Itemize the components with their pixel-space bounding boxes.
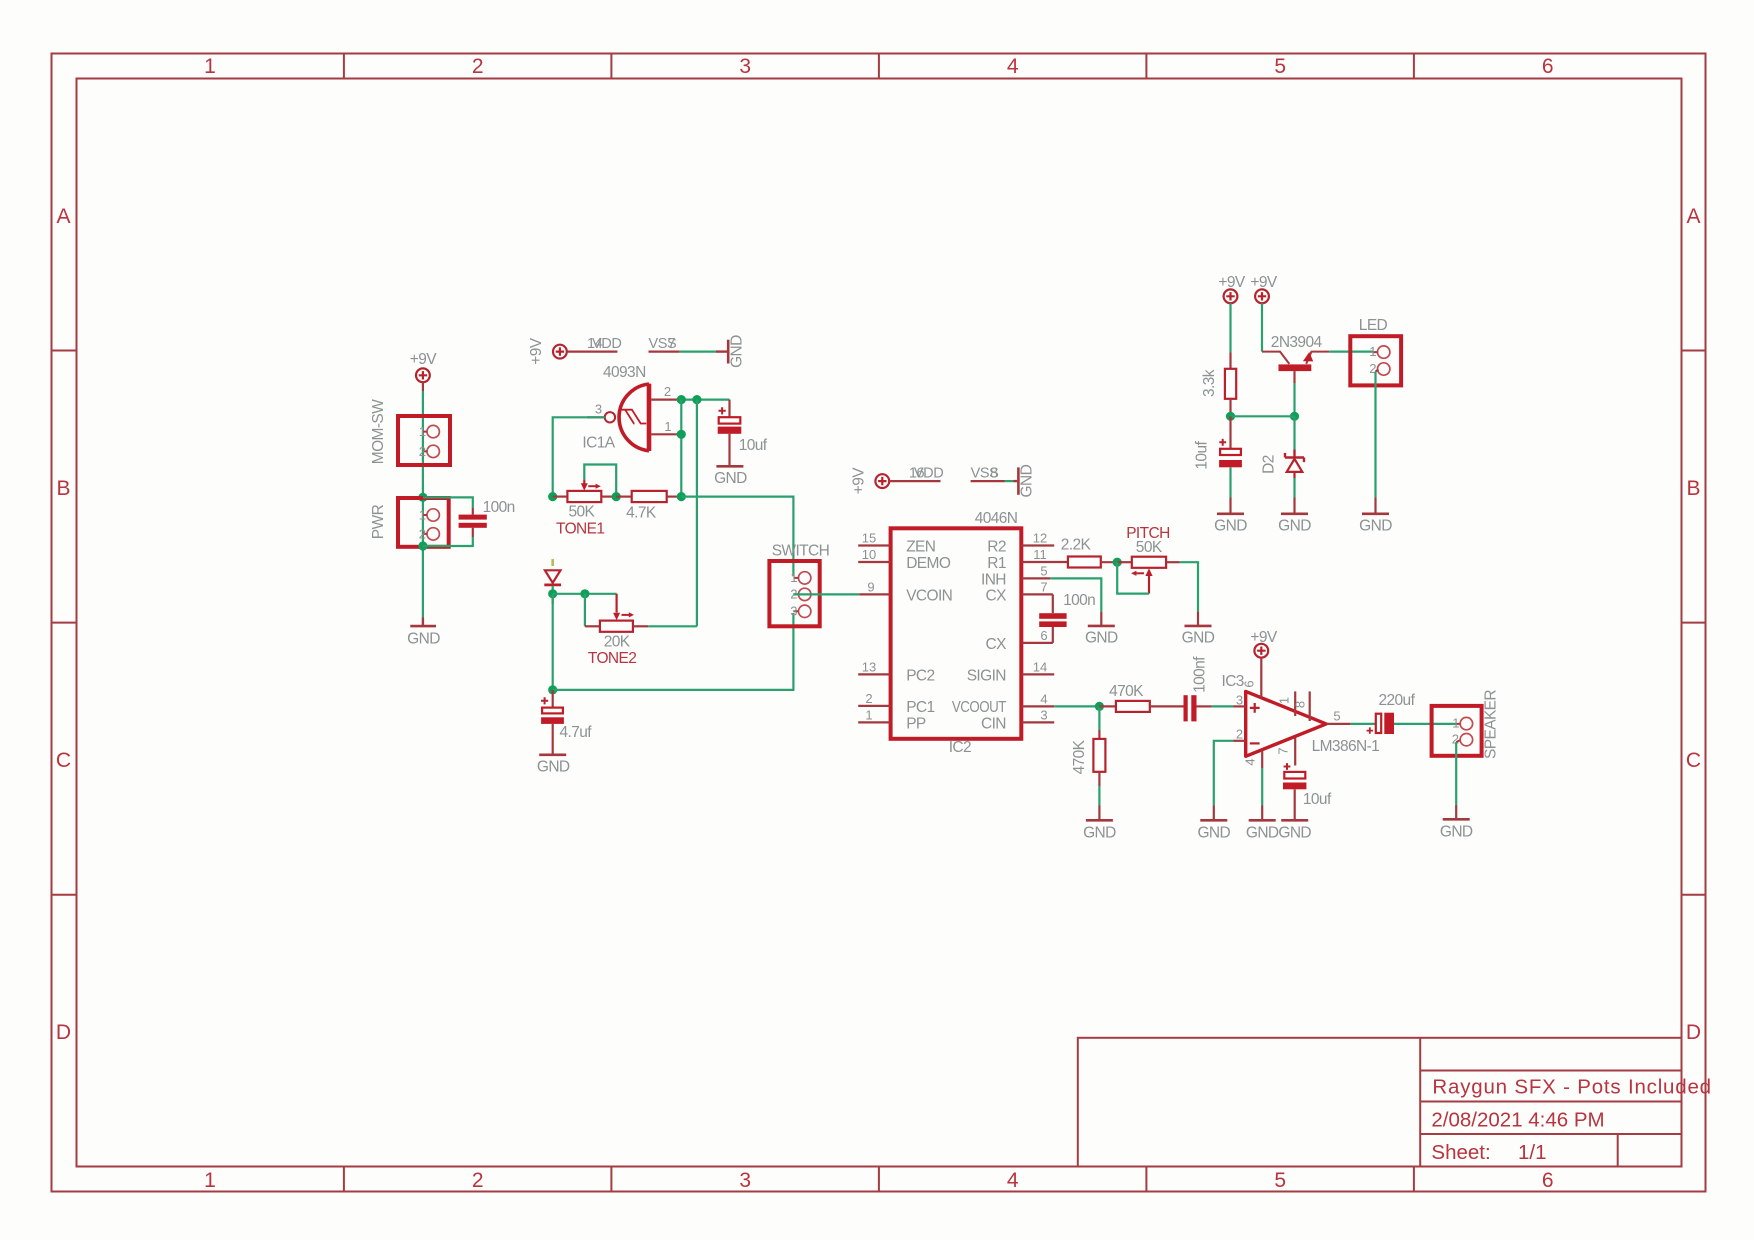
capacitor 4.7uf plus sign	[541, 697, 548, 704]
svg-text:11: 11	[1033, 547, 1047, 562]
connector LED	[1350, 336, 1401, 385]
ground GND (SPEAKER)	[1443, 805, 1470, 819]
frame column labels top	[204, 55, 1553, 78]
svg-text:4: 4	[1243, 758, 1258, 765]
svg-text:GND: GND	[1278, 518, 1311, 535]
node gate out B	[692, 395, 701, 404]
wire 100nf to IC3 pin3	[1212, 705, 1233, 707]
IC IC2 body	[891, 528, 1022, 739]
frame top column ticks	[344, 54, 1414, 79]
frame row labels right	[1686, 205, 1701, 1044]
ground GND (10uf bypass)	[1281, 819, 1308, 822]
resistor 470K vertical	[1093, 730, 1105, 786]
svg-text:VDD: VDD	[914, 465, 943, 481]
svg-text:50K: 50K	[569, 504, 596, 521]
wire PITCH wiper loop	[1117, 562, 1149, 593]
IC3 pin 6 line	[1260, 658, 1262, 698]
svg-text:1: 1	[419, 508, 426, 523]
title block sheet cell divider	[1617, 1134, 1619, 1167]
svg-text:D: D	[56, 1021, 71, 1044]
svg-text:GND: GND	[729, 335, 746, 368]
supply +9V (Q1)	[1255, 289, 1269, 303]
IC1A pin 3 stub	[587, 416, 605, 418]
svg-text:14: 14	[1033, 659, 1047, 674]
svg-text:2: 2	[865, 691, 872, 706]
IC2 pin 12 stub	[1021, 544, 1054, 546]
IC2 pin 1 stub	[858, 721, 890, 723]
node TONE2 wiper junction	[580, 589, 589, 598]
svg-text:1: 1	[419, 424, 426, 439]
svg-text:D2: D2	[1261, 455, 1278, 474]
svg-text:10: 10	[862, 547, 876, 562]
potentiometer TONE1 50K	[553, 479, 617, 502]
title block outline	[1078, 1038, 1682, 1167]
IC3 pin 8 line	[1309, 691, 1311, 721]
svg-text:PC1: PC1	[906, 699, 934, 716]
op-amp IC3 LM386 triangle	[1246, 691, 1327, 756]
svg-text:GND: GND	[1214, 518, 1247, 535]
svg-text:GND: GND	[1085, 630, 1118, 647]
IC2 pin 4 stub	[1021, 705, 1054, 707]
svg-text:220uf: 220uf	[1379, 692, 1416, 709]
supply +9V (MOM-SW)	[416, 368, 430, 382]
capacitor 10uf (bypass)	[1283, 772, 1306, 820]
svg-text:+9V: +9V	[1250, 274, 1277, 291]
svg-text:7: 7	[1040, 579, 1047, 594]
node gate out A	[677, 395, 686, 404]
node VCOOUT junction	[1095, 702, 1104, 711]
svg-text:1: 1	[1369, 344, 1376, 359]
svg-text:8: 8	[1293, 701, 1308, 708]
svg-text:SIGIN: SIGIN	[967, 667, 1006, 684]
svg-text:470K: 470K	[1071, 739, 1088, 774]
svg-text:2N3904: 2N3904	[1271, 334, 1323, 351]
svg-text:4.7uf: 4.7uf	[560, 724, 593, 741]
ground GND (4.7uf)	[539, 753, 566, 756]
IC3 pin 7 line	[1294, 738, 1296, 766]
svg-text:SWITCH: SWITCH	[772, 543, 830, 560]
IC3 plus input mark	[1250, 703, 1260, 713]
supply +9V (IC2 VDD)	[875, 474, 889, 488]
ground GND (D2)	[1281, 498, 1308, 514]
wire TONE1 wiper loop	[584, 465, 616, 497]
svg-text:8: 8	[990, 465, 998, 481]
IC2 pin 5 stub	[1021, 577, 1050, 579]
svg-text:VDD: VDD	[592, 336, 621, 352]
svg-text:1: 1	[204, 55, 216, 78]
wire IC3 pin2 to GND	[1214, 741, 1233, 806]
IC3 pin 5 stub	[1326, 723, 1350, 725]
wire Q1 base to D2	[1293, 416, 1295, 449]
svg-text:5: 5	[1274, 55, 1286, 78]
capacitor 4.7uf	[541, 690, 564, 755]
wire Q1 base down	[1293, 383, 1295, 416]
svg-text:6: 6	[1242, 680, 1257, 687]
wire gate pin2 vertical down to TONE2 row	[696, 400, 698, 627]
svg-text:2: 2	[472, 55, 484, 78]
node 4.7K right junction	[677, 492, 686, 501]
svg-text:C: C	[1686, 749, 1701, 772]
ground GND (PITCH)	[1185, 612, 1212, 626]
IC3 minus input mark	[1250, 742, 1260, 744]
node PWR bottom junction	[418, 541, 427, 550]
svg-text:GND: GND	[1197, 825, 1230, 842]
svg-text:20K: 20K	[604, 634, 631, 651]
svg-text:VCOOUT: VCOOUT	[952, 699, 1007, 716]
svg-text:1: 1	[204, 1169, 216, 1192]
svg-text:15: 15	[862, 531, 876, 546]
svg-text:7: 7	[668, 336, 676, 352]
frame column labels bottom	[204, 1169, 1553, 1192]
IC3 pin 1 line	[1294, 691, 1296, 716]
node TONE1 left junction	[548, 492, 557, 501]
wire +9V to MOM-SW/PWR vertical	[422, 382, 424, 391]
node 3.3k bottom junction	[1226, 412, 1235, 421]
wire Q1 emitter to LED pin1	[1329, 351, 1372, 353]
svg-text:1/1: 1/1	[1518, 1141, 1547, 1164]
node bottom row junction	[548, 685, 557, 694]
wire IC3 pin5 to 220uf	[1350, 723, 1375, 725]
svg-text:7: 7	[1276, 747, 1291, 754]
wire SWITCH pin2 to IC2 pin9	[793, 593, 859, 595]
svg-text:9: 9	[867, 579, 874, 594]
svg-text:IC2: IC2	[949, 739, 971, 756]
capacitor 220uf	[1376, 713, 1394, 734]
node diode bottom junction	[548, 589, 557, 598]
svg-text:1: 1	[1452, 716, 1459, 731]
diode D2 zener	[1285, 450, 1304, 479]
IC2 pin 10 stub	[858, 561, 890, 563]
svg-text:+9V: +9V	[851, 467, 868, 494]
svg-text:3.3k: 3.3k	[1201, 369, 1218, 397]
wire PWR to 100n top	[423, 497, 473, 508]
potentiometer TONE2 20K	[585, 594, 648, 632]
ground GND (10uf top)	[1217, 512, 1244, 515]
title block row lines	[1420, 1071, 1681, 1135]
frame right row ticks	[1682, 351, 1706, 895]
wire junction row	[1231, 415, 1295, 417]
svg-text:PC2: PC2	[906, 667, 934, 684]
ground GND (IC1 VSS) rotated	[716, 340, 728, 364]
svg-text:TONE2: TONE2	[588, 650, 636, 667]
wire LED pin2 to GND	[1374, 372, 1376, 498]
capacitor 10uf (IC1)	[718, 400, 742, 466]
wire VCOOUT to junction	[1054, 705, 1099, 707]
svg-text:1: 1	[664, 419, 671, 434]
IC1A pin 1 stub	[651, 433, 678, 435]
svg-text:CX: CX	[986, 587, 1008, 604]
svg-text:INH: INH	[981, 571, 1006, 588]
svg-text:3: 3	[739, 55, 751, 78]
svg-text:2/08/2021 4:46 PM: 2/08/2021 4:46 PM	[1431, 1109, 1604, 1132]
svg-text:2: 2	[664, 384, 671, 399]
ground GND (PWR)	[410, 618, 436, 627]
frame left row ticks	[52, 351, 77, 895]
node PWR top junction	[418, 493, 427, 502]
wire +9V to 3.3k	[1229, 303, 1231, 352]
svg-text:+9V: +9V	[528, 337, 545, 364]
IC2 pin 9 stub	[859, 593, 890, 595]
diode D1	[544, 570, 561, 585]
svg-text:2.2K: 2.2K	[1061, 537, 1092, 554]
svg-text:2: 2	[1236, 727, 1243, 742]
node pin1 junction	[677, 430, 686, 439]
capacitor 10uf (top)	[1219, 416, 1242, 513]
wire bottom row to SWITCH pin3	[553, 613, 794, 690]
svg-text:5: 5	[1040, 563, 1047, 578]
svg-text:ZEN: ZEN	[906, 539, 935, 556]
svg-text:B: B	[1686, 477, 1700, 500]
wire junction down to 470K vertical	[1098, 706, 1100, 730]
svg-text:GND: GND	[1018, 464, 1035, 497]
svg-text:4: 4	[1040, 691, 1047, 706]
svg-text:GND: GND	[537, 759, 570, 776]
svg-text:100n: 100n	[483, 499, 515, 516]
resistor 2.2K	[1068, 557, 1117, 568]
IC3 pin 4 line	[1261, 750, 1263, 768]
ground GND (LED)	[1362, 498, 1389, 514]
op-amp/gate IC1A (4093 NAND, mirrored)	[619, 384, 649, 451]
ground GND (IC2 VSS) rotated	[1014, 467, 1019, 494]
svg-text:R2: R2	[987, 539, 1006, 556]
wire PITCH right to GND	[1180, 562, 1198, 611]
IC1 pin VSS stub	[649, 351, 680, 353]
IC3 pin 2 stub	[1233, 740, 1246, 742]
IC2 pin 6 stub	[1021, 642, 1053, 644]
svg-text:GND: GND	[1278, 825, 1311, 842]
svg-text:4.7K: 4.7K	[626, 505, 657, 522]
IC2 pin VDD stub	[889, 480, 940, 482]
svg-text:CX: CX	[986, 636, 1008, 653]
svg-text:MOM-SW: MOM-SW	[370, 399, 387, 464]
svg-text:3: 3	[790, 604, 797, 619]
svg-text:GND: GND	[714, 470, 747, 487]
frame bottom column ticks	[344, 1167, 1414, 1192]
svg-text:A: A	[56, 205, 70, 228]
svg-text:10uf: 10uf	[1194, 441, 1211, 470]
IC3 pin 3 stub	[1233, 705, 1246, 707]
IC1A pin 2 stub	[651, 399, 678, 401]
wire 4.7K row to SWITCH pin1	[681, 497, 793, 577]
svg-text:5: 5	[1333, 709, 1340, 724]
svg-text:SPEAKER: SPEAKER	[1483, 690, 1500, 759]
svg-text:R1: R1	[987, 555, 1006, 572]
svg-text:DEMO: DEMO	[906, 555, 951, 572]
svg-text:4: 4	[1007, 1169, 1019, 1192]
wire VSS to GND	[680, 351, 716, 353]
svg-text:1: 1	[1277, 697, 1292, 704]
svg-text:13: 13	[862, 659, 876, 674]
svg-text:2: 2	[419, 527, 426, 542]
IC2 pin 13 stub	[858, 673, 890, 675]
wire gate pin1 vertical down to 4.7K row	[680, 400, 682, 497]
wire SPEAKER pin2 to GND	[1455, 742, 1457, 805]
svg-text:CIN: CIN	[981, 715, 1006, 732]
capacitor 220uf plus sign	[1367, 727, 1373, 733]
svg-text:GND: GND	[1440, 824, 1473, 841]
svg-text:2: 2	[472, 1169, 484, 1192]
connector SPEAKER	[1432, 706, 1482, 756]
wire +9V to Q1 collector	[1261, 303, 1263, 351]
ground GND (IC3 pin2)	[1200, 806, 1227, 821]
capacitor 10uf (IC1) plus sign	[719, 407, 726, 414]
svg-text:2: 2	[419, 444, 426, 459]
svg-text:100nf: 100nf	[1192, 656, 1209, 693]
IC1A inversion bubble	[605, 412, 615, 422]
supply +9V (IC3 pin6)	[1254, 644, 1268, 658]
svg-text:D: D	[1686, 1021, 1701, 1044]
IC2 pin VSS stub	[971, 480, 1005, 482]
svg-text:GND: GND	[407, 631, 440, 648]
capacitor 100n (CX)	[1039, 594, 1066, 643]
svg-text:1: 1	[865, 707, 872, 722]
ground GND (470K)	[1086, 806, 1113, 821]
svg-text:470K: 470K	[1109, 683, 1144, 700]
svg-text:+9V: +9V	[410, 351, 437, 368]
IC2 pin 11 stub	[1021, 561, 1068, 563]
supply +9V (IC1 VDD)	[553, 345, 567, 359]
svg-text:1: 1	[790, 570, 797, 585]
svg-text:+9V: +9V	[1218, 274, 1245, 291]
wire 470K vertical to GND	[1098, 786, 1100, 806]
svg-text:3: 3	[739, 1169, 751, 1192]
svg-text:A: A	[1686, 205, 1700, 228]
svg-text:B: B	[56, 477, 70, 500]
wire gate pin3 to left vertical	[553, 417, 605, 496]
svg-text:4093N: 4093N	[603, 364, 646, 381]
wire diode to TONE2 row	[552, 586, 554, 594]
svg-text:IC3: IC3	[1222, 673, 1244, 690]
wire gate pin2 output row	[678, 399, 729, 401]
svg-text:+9V: +9V	[1250, 629, 1277, 646]
wire D2 to GND	[1293, 478, 1295, 498]
connector PWR	[398, 498, 449, 547]
olive mark above diode	[551, 559, 554, 566]
potentiometer PITCH 50K	[1117, 557, 1180, 594]
svg-text:PP: PP	[906, 715, 926, 732]
svg-text:12: 12	[1033, 531, 1047, 546]
svg-text:TONE1: TONE1	[556, 521, 604, 538]
wire IC2 VSS to GND	[1005, 480, 1014, 482]
title block divider vertical	[1419, 1038, 1421, 1167]
svg-text:LED: LED	[1359, 317, 1388, 334]
wire IC3 pin4 to GND	[1261, 768, 1263, 806]
supply +9V (3.3k)	[1224, 289, 1238, 303]
IC2 pin 14 stub	[1021, 673, 1054, 675]
ground GND (IC3 pin4)	[1249, 806, 1276, 821]
IC1 pin VDD stub	[567, 351, 618, 353]
IC2 pin 7 stub	[1021, 593, 1053, 595]
frame row labels left	[56, 205, 71, 1044]
transistor Q1 2N3904	[1262, 352, 1329, 384]
node 2.2K PITCH junction	[1113, 558, 1122, 567]
svg-text:GND: GND	[1359, 518, 1392, 535]
svg-text:GND: GND	[1246, 825, 1279, 842]
capacitor 100nf	[1184, 695, 1212, 721]
ground GND (INH)	[1088, 612, 1115, 626]
svg-text:6: 6	[1040, 628, 1047, 643]
svg-text:LM386N-1: LM386N-1	[1312, 738, 1380, 755]
svg-text:PWR: PWR	[370, 504, 387, 539]
svg-text:5: 5	[1274, 1169, 1286, 1192]
resistor 3.3k	[1225, 353, 1236, 417]
IC2 pin 2 stub	[858, 705, 890, 707]
ground GND (10uf IC1)	[716, 465, 743, 468]
svg-text:3: 3	[1040, 707, 1047, 722]
svg-text:C: C	[56, 749, 71, 772]
svg-text:6: 6	[1542, 55, 1554, 78]
resistor 4.7K	[616, 491, 681, 502]
svg-text:Sheet:: Sheet:	[1431, 1141, 1490, 1164]
svg-text:10uf: 10uf	[739, 437, 768, 454]
node TONE1 right junction	[612, 492, 621, 501]
connector MOM-SW	[398, 416, 450, 465]
svg-text:3: 3	[1236, 693, 1243, 708]
olive mark below diode	[551, 598, 554, 604]
svg-text:10uf: 10uf	[1303, 791, 1332, 808]
svg-text:GND: GND	[1182, 630, 1215, 647]
capacitor 100n (power)	[459, 508, 487, 537]
svg-text:4046N: 4046N	[975, 510, 1018, 527]
wire INH to GND	[1050, 578, 1101, 611]
svg-text:GND: GND	[1083, 825, 1116, 842]
IC2 pin 15 stub	[858, 544, 890, 546]
connector SWITCH	[769, 561, 819, 626]
svg-text:6: 6	[1542, 1169, 1554, 1192]
svg-text:IC1A: IC1A	[582, 435, 615, 452]
IC2 pin 3 stub	[1021, 721, 1054, 723]
capacitor 10uf (bypass) plus sign	[1284, 763, 1291, 770]
wire TONE2 right to gate pin2 vertical	[648, 625, 697, 627]
wire 220uf to SPEAKER pin1	[1394, 723, 1456, 725]
resistor 470K horizontal	[1099, 701, 1183, 712]
svg-text:3: 3	[595, 402, 602, 417]
svg-text:100n: 100n	[1063, 592, 1095, 609]
wire TONE2 left leg	[584, 594, 586, 627]
wire TONE2 row horizontal	[553, 593, 617, 595]
svg-text:VCOIN: VCOIN	[906, 587, 952, 604]
capacitor 10uf (top) plus sign	[1219, 439, 1226, 446]
svg-text:50K: 50K	[1136, 539, 1163, 556]
wire diode junction down to bottom row	[552, 594, 554, 690]
node Q1 base junction	[1290, 412, 1299, 421]
wire 100n bottom to PWR bottom	[423, 537, 473, 546]
svg-text:4: 4	[1007, 55, 1019, 78]
svg-text:Raygun SFX - Pots Included: Raygun SFX - Pots Included	[1432, 1076, 1711, 1099]
